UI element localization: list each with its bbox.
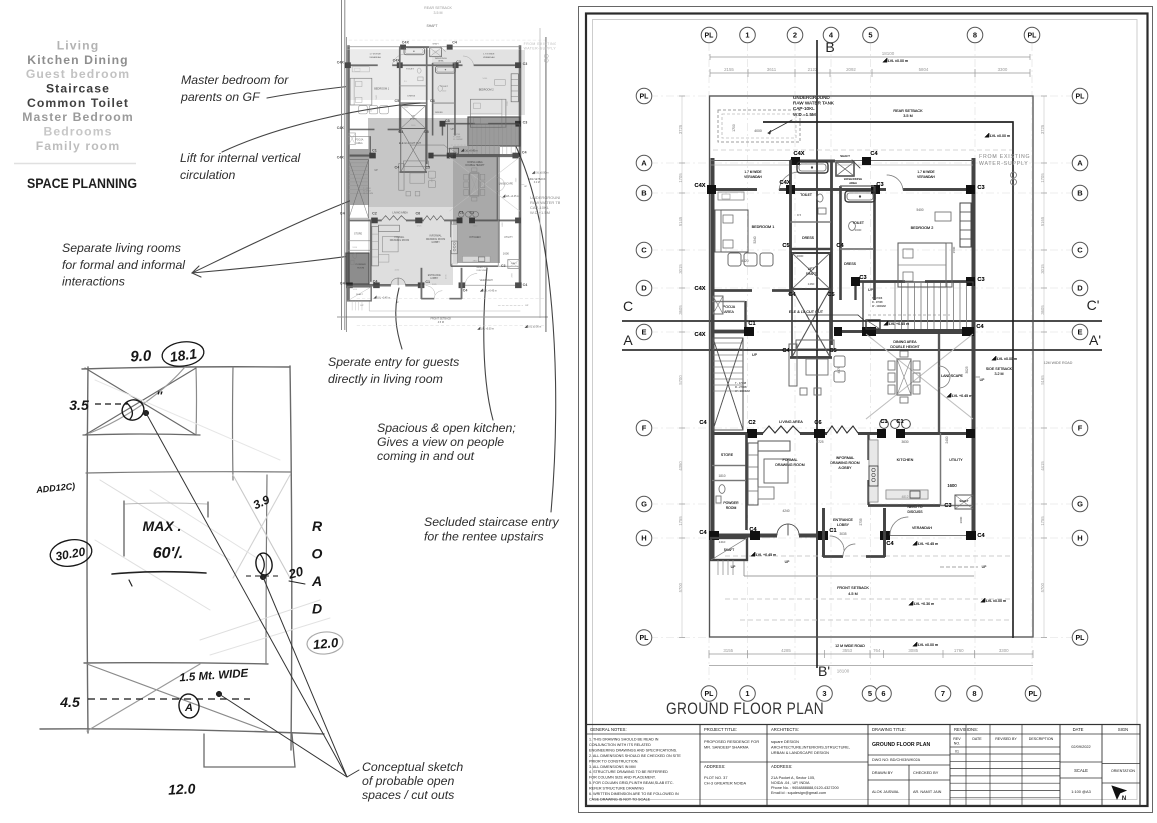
svg-text:PL: PL bbox=[705, 33, 715, 40]
leader curve to master bedroom bbox=[267, 75, 481, 98]
sketch inner horizontal at 473 bbox=[86, 472, 291, 473]
stairs dashed arrow bbox=[868, 314, 950, 316]
svg-text:2092: 2092 bbox=[846, 67, 856, 72]
svg-text:Phone No. : 9654888888,0120-43: Phone No. : 9654888888,0120-4327200 bbox=[771, 786, 839, 790]
svg-text:C': C' bbox=[1087, 297, 1100, 313]
svg-text:URBAN & LANDSCAPE DESIGN: URBAN & LANDSCAPE DESIGN bbox=[771, 750, 829, 755]
svg-text:5700: 5700 bbox=[678, 582, 683, 592]
svg-text:A: A bbox=[1077, 159, 1083, 168]
svg-text:G: G bbox=[1077, 500, 1083, 509]
sketch outer rectangle top edge bbox=[82, 367, 290, 369]
dashed line 4.5 bbox=[88, 698, 250, 700]
max underline bbox=[112, 572, 206, 574]
entrance lobby walls bbox=[822, 508, 825, 557]
folding door zigzag 2 bbox=[827, 426, 858, 433]
water supply line L-shape bbox=[763, 122, 1013, 638]
svg-text:1755: 1755 bbox=[678, 516, 683, 526]
svg-text:PL: PL bbox=[705, 691, 715, 698]
svg-text:Family room: Family room bbox=[36, 139, 121, 153]
svg-text:W.D.+1.5M: W.D.+1.5M bbox=[530, 210, 550, 215]
svg-text:18100: 18100 bbox=[882, 51, 895, 56]
svg-text:21A Pocket A, Sector 105,: 21A Pocket A, Sector 105, bbox=[771, 776, 815, 780]
sketch inner vertical 267 bbox=[266, 475, 267, 664]
svg-text:MAX .: MAX . bbox=[143, 518, 182, 534]
kitchen bottom counter bbox=[886, 490, 928, 499]
svg-text:PL: PL bbox=[640, 635, 650, 642]
bedroom1 south wall bbox=[711, 289, 752, 292]
svg-text:Separate living rooms: Separate living rooms bbox=[62, 241, 181, 255]
right dimension values bbox=[1043, 96, 1045, 638]
sketch faint hatch lines bbox=[100, 480, 230, 560]
svg-text:Secluded staircase entry: Secluded staircase entry bbox=[424, 515, 560, 529]
front wall row H bbox=[711, 534, 777, 538]
svg-text:Guest bedroom: Guest bedroom bbox=[26, 67, 130, 81]
bathtub toilet2 bbox=[845, 191, 875, 202]
svg-text:G: G bbox=[641, 500, 647, 509]
title block outline bbox=[586, 725, 1140, 806]
svg-text:3.5 M: 3.5 M bbox=[434, 11, 443, 15]
powder room walls bbox=[745, 433, 747, 530]
zone fill middle living bbox=[368, 118, 468, 207]
svg-text:″: ″ bbox=[157, 389, 163, 403]
svg-text:5165: 5165 bbox=[1040, 216, 1045, 226]
section line A-A horizontal bbox=[622, 349, 1102, 351]
north arrow bbox=[1112, 786, 1126, 799]
divider under room list bbox=[14, 163, 136, 165]
void bottom wall bbox=[790, 356, 832, 359]
plot boundary right line bbox=[539, 28, 541, 318]
svg-text:FOR COLUMN SIZE AND PLACEMENT.: FOR COLUMN SIZE AND PLACEMENT. bbox=[589, 776, 656, 780]
svg-text:5. FOR COLUMN GRID,PLINTH BEA: 5. FOR COLUMN GRID,PLINTH BEAM,SLAB ETC. bbox=[589, 781, 674, 785]
svg-text:spaces / cut outs: spaces / cut outs bbox=[362, 788, 454, 802]
svg-text:4. STRUCTURE DRAWING TO BE RE: 4. STRUCTURE DRAWING TO BE REFERRED bbox=[589, 770, 668, 774]
svg-text:SPACE PLANNING: SPACE PLANNING bbox=[27, 175, 137, 191]
svg-text:DRAWN BY: DRAWN BY bbox=[872, 770, 893, 775]
powder wc bbox=[719, 485, 725, 494]
sign orientation dividers bbox=[1102, 763, 1140, 765]
svg-text:1705: 1705 bbox=[1040, 173, 1045, 183]
void cutout with X bbox=[792, 289, 830, 357]
title block header row line bbox=[586, 733, 1140, 735]
bedroom2 south columns bbox=[851, 277, 860, 286]
zone fill upper bedrooms light bbox=[346, 50, 432, 100]
svg-text:DRAWING TITLE:: DRAWING TITLE: bbox=[872, 727, 906, 732]
svg-text:DWG NO: BD/CH03/WK02A: DWG NO: BD/CH03/WK02A bbox=[872, 758, 921, 762]
leader curve kitchen view bbox=[484, 268, 493, 420]
svg-text:5700: 5700 bbox=[1040, 582, 1045, 592]
row B wall - bedroom wing north bbox=[711, 188, 757, 191]
svg-text:4415: 4415 bbox=[1040, 461, 1045, 471]
ele lv cutout box bbox=[866, 320, 880, 329]
svg-text:3300: 3300 bbox=[998, 67, 1008, 72]
svg-text:C: C bbox=[641, 246, 647, 255]
living coffee table bbox=[806, 359, 828, 375]
water meter symbol bbox=[1011, 172, 1017, 178]
kitchen south wall bbox=[868, 504, 940, 507]
svg-text:SIGN: SIGN bbox=[1118, 727, 1128, 732]
svg-text:Staircase: Staircase bbox=[46, 81, 110, 95]
front wall columns bbox=[709, 531, 719, 540]
leader curve secluded staircase bbox=[509, 133, 556, 512]
plot boundary vertical double line left bbox=[341, 0, 343, 330]
svg-text:01: 01 bbox=[955, 750, 959, 754]
svg-text:PL: PL bbox=[1076, 94, 1086, 101]
vertical grid dashed lines bbox=[708, 43, 710, 682]
circled A bottom bbox=[177, 693, 200, 720]
building plan instance bbox=[695, 58, 1073, 648]
toilet block top wall bbox=[790, 160, 835, 163]
svg-text:parents on GF: parents on GF bbox=[180, 90, 261, 104]
svg-text:B: B bbox=[825, 39, 834, 55]
svg-text:A: A bbox=[623, 332, 633, 348]
svg-text:DATE: DATE bbox=[972, 737, 982, 741]
kitchen stove bbox=[869, 466, 878, 486]
svg-text:3553: 3553 bbox=[842, 648, 852, 653]
plot bottom line bbox=[337, 316, 548, 318]
svg-text:7: 7 bbox=[941, 689, 945, 698]
svg-text:ADDRESS:: ADDRESS: bbox=[704, 764, 725, 769]
svg-text:1755: 1755 bbox=[1040, 516, 1045, 526]
row E main wall bbox=[711, 330, 753, 333]
svg-text:4.5: 4.5 bbox=[59, 694, 80, 710]
svg-text:3605: 3605 bbox=[678, 305, 683, 315]
living chairs bbox=[834, 356, 845, 367]
svg-text:A: A bbox=[184, 702, 193, 714]
leader dots bbox=[143, 410, 149, 416]
svg-text:GROUND FLOOR PLAN: GROUND FLOOR PLAN bbox=[872, 742, 930, 748]
svg-text:3015: 3015 bbox=[1040, 264, 1045, 274]
svg-text:ENGINEERING DRAWINGS AND SPECI: ENGINEERING DRAWINGS AND SPECIFICATIONS. bbox=[589, 748, 677, 752]
svg-text:PL: PL bbox=[1029, 691, 1039, 698]
svg-text:C: C bbox=[1077, 246, 1083, 255]
svg-text:SCALE: SCALE bbox=[1074, 768, 1088, 773]
svg-text:O: O bbox=[312, 546, 323, 562]
left staircase bbox=[713, 338, 743, 430]
svg-text:GENERAL NOTES:: GENERAL NOTES: bbox=[590, 727, 627, 732]
svg-text:H: H bbox=[1077, 534, 1082, 543]
svg-text:REVISED BY: REVISED BY bbox=[995, 737, 1017, 741]
leader curve to lift bbox=[222, 103, 420, 152]
svg-text:5: 5 bbox=[868, 31, 872, 40]
scaled building plan copy bbox=[337, 0, 586, 357]
svg-text:5145: 5145 bbox=[678, 216, 683, 226]
svg-text:ARCHITECTURE,INTERIORS,STRUCTU: ARCHITECTURE,INTERIORS,STRUCTURE, bbox=[771, 745, 850, 750]
row F wall bbox=[711, 432, 763, 435]
bedroom2 wardrobe bbox=[960, 203, 971, 247]
svg-text:B: B bbox=[641, 189, 647, 198]
circled phi mid bbox=[254, 552, 274, 576]
address row divider col2-3 bbox=[700, 761, 868, 763]
svg-text:8: 8 bbox=[972, 689, 976, 698]
underground water tank dashed outline bbox=[718, 110, 800, 142]
left exterior wall bbox=[711, 158, 715, 560]
svg-text:3725: 3725 bbox=[1040, 124, 1045, 134]
svg-text:1. THIS DRAWING SHOULD BE REA: 1. THIS DRAWING SHOULD BE READ IN bbox=[589, 738, 659, 742]
setback dashed lines front yard bbox=[725, 555, 1013, 557]
svg-text:5165: 5165 bbox=[1040, 375, 1045, 385]
row B columns bbox=[707, 185, 716, 194]
svg-text:Common Toilet: Common Toilet bbox=[27, 96, 129, 110]
svg-text:Email id : squdesign@gmail.co: Email id : squdesign@gmail.com bbox=[771, 791, 826, 795]
toilet block vertical walls bbox=[789, 160, 792, 295]
svg-text:E: E bbox=[1077, 328, 1082, 337]
svg-text:3: 3 bbox=[822, 689, 826, 698]
svg-text:B: B bbox=[1077, 189, 1083, 198]
lift shaft bbox=[792, 253, 830, 289]
svg-text:E: E bbox=[641, 328, 646, 337]
svg-text:3.5: 3.5 bbox=[69, 397, 89, 413]
svg-text:C: C bbox=[623, 298, 633, 314]
svg-text:3015: 3015 bbox=[678, 264, 683, 274]
svg-text:2. ALL DIMENSIONS SHOULD BE C: 2. ALL DIMENSIONS SHOULD BE CHECKED ON S… bbox=[589, 754, 681, 758]
zone fill courtyard dark bbox=[453, 146, 500, 263]
svg-text:12.0: 12.0 bbox=[312, 635, 339, 652]
svg-text:3. ALL DIMENSIONS IN MM: 3. ALL DIMENSIONS IN MM bbox=[589, 765, 636, 769]
svg-text:Kitchen Dining: Kitchen Dining bbox=[27, 53, 128, 67]
stair treads top-right bbox=[894, 283, 896, 330]
svg-text:1:100 @A3: 1:100 @A3 bbox=[1071, 789, 1091, 794]
zone fill stairs top right dark bbox=[468, 117, 520, 146]
svg-text:2: 2 bbox=[793, 31, 797, 40]
level markers bbox=[883, 58, 887, 62]
bedroom1 door arc bbox=[779, 172, 799, 190]
dress divider bbox=[790, 248, 831, 250]
bottom-left steps bbox=[717, 560, 719, 575]
svg-text:3605: 3605 bbox=[1040, 305, 1045, 315]
living area sofa set bbox=[789, 344, 797, 386]
shaft bottom-left bbox=[711, 538, 747, 560]
horizontal grid dashed lines bbox=[650, 95, 1072, 97]
kitchen sink bbox=[910, 491, 920, 498]
grid bubbles top bbox=[701, 27, 717, 43]
svg-text:Lift for internal vertical: Lift for internal vertical bbox=[180, 151, 302, 165]
leader curve guests entry bbox=[396, 288, 402, 349]
svg-text:circulation: circulation bbox=[180, 168, 236, 182]
svg-text:D: D bbox=[312, 601, 322, 617]
left dimension values bbox=[681, 96, 683, 638]
zone fill left stairs dark bbox=[350, 149, 369, 205]
right exterior wall bbox=[972, 158, 976, 538]
grid bubbles left bbox=[636, 88, 652, 104]
leader arrow head at separate living text bbox=[192, 266, 201, 277]
svg-text:3155: 3155 bbox=[723, 648, 733, 653]
store room bbox=[712, 465, 746, 467]
small shaft kitchen bbox=[955, 495, 973, 509]
sheet main frame bbox=[586, 14, 1148, 807]
sketch S-curve through box bbox=[90, 367, 185, 433]
svg-text:CHECKED BY: CHECKED BY bbox=[913, 770, 939, 775]
svg-text:NO.: NO. bbox=[954, 742, 960, 746]
svg-text:of probable open: of probable open bbox=[362, 774, 454, 788]
svg-text:DESCRIPTION: DESCRIPTION bbox=[1029, 737, 1054, 741]
svg-text:Gives a view on people: Gives a view on people bbox=[377, 435, 504, 449]
svg-text:1760: 1760 bbox=[954, 648, 964, 653]
dashed mid phi line bbox=[246, 575, 280, 577]
svg-text:PL: PL bbox=[640, 94, 650, 101]
svg-text:F: F bbox=[642, 424, 647, 433]
svg-text:A: A bbox=[641, 159, 647, 168]
sketch inner vertical 233 bbox=[232, 367, 235, 480]
top dimension line overall bbox=[710, 56, 1030, 58]
svg-text:square DESIGN: square DESIGN bbox=[771, 739, 799, 744]
svg-text:ARCHITECTS:: ARCHITECTS: bbox=[771, 727, 799, 732]
formal drawing room sofa bbox=[748, 443, 758, 505]
sketch right vertical bbox=[290, 366, 292, 750]
bedroom1 chairs bbox=[728, 253, 741, 266]
svg-text:60'/.: 60'/. bbox=[153, 545, 184, 562]
svg-text:NOIDA -04 , UP, INDIA: NOIDA -04 , UP, INDIA bbox=[771, 781, 810, 785]
svg-text:REFER STRUCTURE DRAWING: REFER STRUCTURE DRAWING bbox=[589, 787, 644, 791]
svg-text:PROPOSED RESIDENCE FOR: PROPOSED RESIDENCE FOR bbox=[704, 739, 759, 744]
svg-text:PL: PL bbox=[1076, 635, 1086, 642]
svg-text:6: 6 bbox=[881, 689, 885, 698]
svg-text:PRIOR TO CONSTRUCTION.: PRIOR TO CONSTRUCTION. bbox=[589, 759, 638, 763]
verandah door arc bbox=[890, 517, 908, 535]
svg-text:1: 1 bbox=[745, 689, 749, 698]
svg-text:H: H bbox=[641, 534, 646, 543]
pooja area walls bbox=[744, 301, 746, 331]
svg-text:R: R bbox=[312, 518, 323, 534]
svg-text:9.0: 9.0 bbox=[130, 347, 152, 365]
kitchen counters bbox=[869, 440, 878, 502]
svg-text:D: D bbox=[641, 284, 647, 293]
svg-text:3725: 3725 bbox=[678, 124, 683, 134]
svg-text:ORIENTATION: ORIENTATION bbox=[1111, 769, 1135, 773]
folding door zigzag 1 bbox=[763, 426, 800, 433]
svg-text:for formal and informal: for formal and informal bbox=[62, 258, 186, 272]
svg-text:Master bedroom for: Master bedroom for bbox=[181, 73, 289, 87]
svg-text:B': B' bbox=[818, 663, 830, 679]
sketch mid X faint bbox=[233, 475, 290, 578]
columns row F bbox=[747, 429, 757, 438]
lobby door arc bbox=[843, 544, 855, 556]
svg-text:coming in and out: coming in and out bbox=[377, 449, 475, 463]
svg-text:1705: 1705 bbox=[678, 173, 683, 183]
front setback line bbox=[744, 575, 974, 577]
svg-text:ADDRESS:: ADDRESS: bbox=[771, 764, 792, 769]
svg-text:CH-3 GREATER NOIDA: CH-3 GREATER NOIDA bbox=[704, 781, 746, 786]
toilet1 fixtures bbox=[817, 194, 823, 202]
svg-text:F: F bbox=[1078, 424, 1083, 433]
svg-text:3300: 3300 bbox=[999, 648, 1009, 653]
sketch bottom strip X bbox=[87, 664, 267, 731]
planter circles at courtyard edge bbox=[880, 420, 889, 429]
svg-text:CASE DRAWING IS NOT TO SCALE: CASE DRAWING IS NOT TO SCALE bbox=[589, 797, 651, 801]
svg-text:Sperate entry for guests: Sperate entry for guests bbox=[328, 355, 459, 369]
svg-text:DATE: DATE bbox=[1073, 727, 1084, 732]
stairs top-right block bbox=[863, 282, 973, 331]
svg-text:18100: 18100 bbox=[837, 669, 850, 674]
svg-text:PROJECT TITLE:: PROJECT TITLE: bbox=[704, 727, 737, 732]
svg-text:12.0: 12.0 bbox=[168, 780, 196, 797]
utility room bbox=[940, 433, 942, 505]
bedroom2 south wall bbox=[855, 280, 905, 283]
svg-text:5804: 5804 bbox=[919, 67, 929, 72]
toilet2 fixtures bbox=[849, 222, 856, 231]
revisions grid bbox=[965, 725, 967, 806]
section line C-C horizontal bbox=[622, 320, 1102, 322]
svg-text:GROUND FLOOR PLAN: GROUND FLOOR PLAN bbox=[666, 699, 824, 718]
dining double height X bbox=[866, 334, 973, 419]
title block verticals bbox=[699, 725, 701, 806]
toilet divider bbox=[790, 221, 831, 223]
scale cell bbox=[1060, 761, 1102, 763]
main entrance double door bbox=[777, 524, 788, 535]
sketch bottom notch box bbox=[204, 734, 295, 767]
zone fill powder dark bbox=[346, 253, 369, 284]
svg-text:AR. NAMIT JAIN: AR. NAMIT JAIN bbox=[913, 790, 942, 794]
svg-text:Conceptual sketch: Conceptual sketch bbox=[362, 760, 463, 774]
leader curve to informal room bbox=[192, 247, 406, 273]
svg-text:N: N bbox=[1122, 796, 1126, 802]
svg-text:directly in living room: directly in living room bbox=[328, 372, 443, 386]
svg-text:4285: 4285 bbox=[781, 648, 791, 653]
dashed line 3.5 bbox=[95, 403, 128, 405]
svg-text:Master Bedroom: Master Bedroom bbox=[22, 110, 134, 124]
shaft toilet1 hatch bbox=[836, 162, 854, 176]
svg-text:02/09/2022: 02/09/2022 bbox=[1071, 744, 1090, 749]
dining table and chairs bbox=[897, 359, 911, 395]
toilet2 walls bbox=[839, 186, 841, 300]
svg-text:CONJUNCTION WITH ITS RELATED: CONJUNCTION WITH ITS RELATED bbox=[589, 743, 651, 747]
svg-text:3085: 3085 bbox=[908, 648, 918, 653]
section line B vertical bbox=[816, 40, 818, 668]
svg-text:interactions: interactions bbox=[62, 275, 125, 289]
svg-text:PLOT NO. 37: PLOT NO. 37 bbox=[704, 775, 728, 780]
sketch line y664 bbox=[84, 663, 268, 664]
svg-text:2155: 2155 bbox=[724, 67, 734, 72]
sketch bottom wide line y731 bbox=[40, 729, 324, 734]
svg-text:5700: 5700 bbox=[678, 375, 683, 385]
svg-text:764: 764 bbox=[873, 648, 881, 653]
sketch left vertical bbox=[87, 367, 88, 733]
svg-text:ALOK JAISWAL: ALOK JAISWAL bbox=[872, 790, 899, 794]
bedroom2 bench bbox=[935, 212, 951, 221]
svg-text:5: 5 bbox=[868, 689, 872, 698]
svg-text:A: A bbox=[311, 573, 322, 589]
circled phi top bbox=[119, 397, 147, 423]
plot boundary bbox=[710, 96, 1034, 637]
svg-text:3611: 3611 bbox=[767, 67, 777, 72]
zone fill bedroom2 side bbox=[432, 50, 525, 115]
informal-kitchen separator wall bbox=[867, 433, 869, 460]
shaft near pooja bbox=[713, 296, 723, 314]
zone fill lower formal light bbox=[368, 207, 453, 285]
verandah couch left bbox=[718, 192, 744, 200]
svg-text:8: 8 bbox=[973, 31, 977, 40]
top wall columns bbox=[791, 157, 800, 165]
svg-text:1: 1 bbox=[745, 31, 749, 40]
MAX 60 box ticks bbox=[123, 501, 125, 556]
svg-text:PL: PL bbox=[1028, 33, 1038, 40]
columns row E bbox=[744, 327, 754, 336]
bottom dimension line segments bbox=[709, 653, 1033, 655]
bedroom1 bed bbox=[715, 210, 748, 252]
svg-text:Living: Living bbox=[57, 38, 99, 52]
svg-text:REV: REV bbox=[953, 737, 961, 741]
sheet outer frame bbox=[579, 7, 1153, 813]
svg-text:Spacious & open kitchen;: Spacious & open kitchen; bbox=[377, 421, 516, 435]
svg-text:REAR SETBACK: REAR SETBACK bbox=[424, 6, 452, 10]
bottom overall dimension bbox=[709, 665, 1033, 667]
rear yard dashed line bbox=[713, 149, 1013, 151]
svg-text:Bedrooms: Bedrooms bbox=[43, 125, 112, 139]
svg-text:4350: 4350 bbox=[678, 461, 683, 471]
sheet inner light frame bbox=[593, 20, 1138, 800]
svg-text:D: D bbox=[1077, 284, 1083, 293]
top dimension line segments bbox=[710, 72, 1030, 74]
svg-text:SHAFT: SHAFT bbox=[426, 24, 437, 28]
